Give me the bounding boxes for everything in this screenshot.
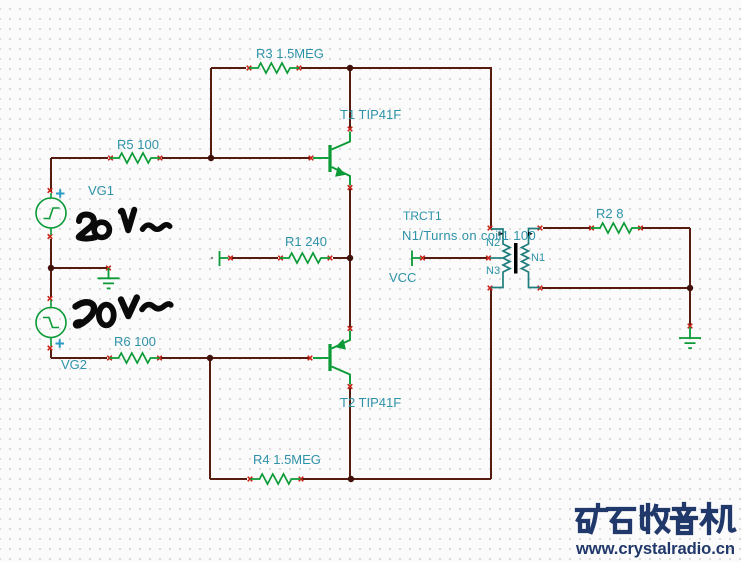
- source VG1: [36, 193, 66, 235]
- pin VCC: [420, 256, 425, 261]
- pin voltage probe: [228, 256, 233, 261]
- pin R3 left: [247, 66, 252, 71]
- pin R1 left: [278, 256, 283, 261]
- wire R5 row: [51, 157, 310, 159]
- wire right bottom vertical: [490, 288, 492, 479]
- pin TRCT1 top-left: [488, 226, 493, 231]
- resistor R1: [280, 253, 330, 263]
- wire ground stub left: [51, 267, 107, 269]
- resistor R3: [249, 63, 299, 73]
- wire R1 row: [232, 257, 350, 259]
- svg-text:R3 1.5MEG: R3 1.5MEG: [256, 46, 324, 61]
- pin TRCT1 center tap: [486, 256, 491, 261]
- svg-text:R1 240: R1 240: [285, 234, 327, 249]
- pin R6 right: [157, 356, 162, 361]
- resistor R4: [251, 474, 301, 484]
- transistor T2: [313, 331, 350, 385]
- wire R2 row: [543, 227, 690, 229]
- pin VG1 top: [48, 188, 53, 193]
- svg-text:N1: N1: [531, 252, 545, 264]
- node R6 row: [207, 355, 213, 361]
- svg-text:VCC: VCC: [389, 270, 416, 285]
- char shi: [608, 509, 634, 532]
- wire bottom-left vertical: [209, 358, 211, 479]
- pin T1 base: [309, 156, 314, 161]
- char shou: [642, 505, 668, 532]
- pin TRCT1 top-right: [538, 226, 543, 231]
- wire right vertical R2 to gnd: [689, 228, 691, 326]
- char yin: [672, 504, 696, 533]
- HANDWRITING: [76, 210, 171, 326]
- wire VG column: [50, 158, 52, 358]
- wire mid column T1-T2: [349, 68, 351, 479]
- pin R1 right: [328, 256, 333, 261]
- ground right: [679, 327, 701, 348]
- pin R3 right: [297, 66, 302, 71]
- wire R3 left vertical: [210, 68, 212, 158]
- pin R2 right: [638, 226, 643, 231]
- svg-text:R2 8: R2 8: [596, 206, 623, 221]
- pin VG1 bottom: [48, 234, 53, 239]
- svg-text:N2: N2: [486, 237, 500, 249]
- wire R4 row: [210, 478, 491, 480]
- WATERMARK: [575, 504, 735, 558]
- node R3/R5 left: [208, 155, 214, 161]
- transistor T1: [313, 132, 350, 186]
- svg-text:VG1: VG1: [88, 183, 114, 198]
- pin T1 emitter: [348, 185, 353, 190]
- pin R2 left: [589, 226, 594, 231]
- resistor R2: [591, 223, 641, 233]
- char ji: [702, 504, 734, 533]
- char kuang: [577, 505, 606, 532]
- ground left: [98, 268, 120, 288]
- pin T1 collector: [348, 127, 353, 132]
- svg-text:N1/Turns on coil1 100: N1/Turns on coil1 100: [402, 228, 536, 243]
- svg-text:T1 TIP41F: T1 TIP41F: [340, 107, 401, 122]
- wire R3 row: [211, 67, 491, 69]
- plus VG2: [56, 339, 65, 348]
- node VG gnd: [48, 265, 54, 271]
- annotation 20V~ upper: [79, 210, 170, 239]
- wire right top vertical: [490, 67, 492, 228]
- logo text kuang shi shou yin ji: [577, 504, 734, 533]
- svg-text:N3: N3: [486, 265, 500, 277]
- node mid R1: [347, 255, 353, 261]
- VCC pin: [412, 251, 421, 267]
- resistor R5: [110, 153, 160, 163]
- pin R4 right: [299, 477, 304, 482]
- node bottom mid: [348, 476, 354, 482]
- voltage probe pin near R1: [211, 251, 229, 266]
- pin R6 left: [107, 356, 112, 361]
- pin R4 left: [248, 477, 253, 482]
- pin VG2 bottom: [48, 346, 53, 351]
- node top mid: [347, 65, 353, 71]
- plus VG1: [56, 189, 65, 198]
- transformer TRCT1: [490, 229, 540, 288]
- wire R6 row: [51, 357, 309, 359]
- svg-text:VG2: VG2: [61, 357, 87, 372]
- svg-text:R6 100: R6 100: [114, 334, 156, 349]
- svg-text:TRCT1: TRCT1: [403, 209, 442, 223]
- pin T2 bottom: [348, 384, 353, 389]
- svg-text:R4 1.5MEG: R4 1.5MEG: [253, 452, 321, 467]
- pin VG2 top: [48, 296, 53, 301]
- PINS (red x marks): [48, 66, 693, 482]
- node right gnd: [687, 285, 693, 291]
- pin TRCT1 bottom-left: [488, 286, 493, 291]
- pin T2 top: [348, 326, 353, 331]
- svg-text:T2 TIP41F: T2 TIP41F: [340, 395, 401, 410]
- svg-text:www.crystalradio.cn: www.crystalradio.cn: [575, 539, 735, 558]
- svg-text:R5 100: R5 100: [117, 137, 159, 152]
- source VG2: [36, 300, 66, 346]
- pin ground right: [688, 324, 693, 329]
- pin TRCT1 bottom-right: [538, 286, 543, 291]
- pin R5 right: [158, 156, 163, 161]
- resistor R6: [110, 353, 160, 363]
- pin R5 left: [108, 156, 113, 161]
- pin ground left: [106, 266, 111, 271]
- pin T2 base: [308, 356, 313, 361]
- wire VCC row: [424, 257, 487, 259]
- annotation 20V~ lower: [76, 298, 171, 326]
- wire transformer bottom right row: [542, 287, 690, 289]
